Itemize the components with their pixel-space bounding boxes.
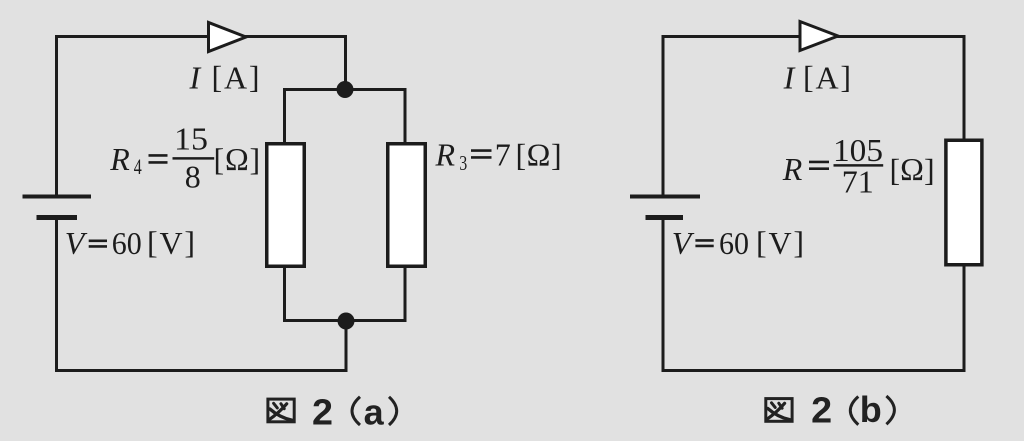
wire: left conductor lower (a) <box>55 218 58 373</box>
svg-text:[Ω]: [Ω] <box>516 136 563 172</box>
wire: top conductor (a) <box>55 35 347 38</box>
wire: top-right drop to node (a) <box>344 35 347 90</box>
wire: R3 bottom lead (a) <box>404 267 407 322</box>
resistor R3 <box>388 144 426 267</box>
node: top junction (a) <box>337 81 354 98</box>
svg-text:V: V <box>672 225 695 261</box>
current arrow I (a) <box>209 23 247 52</box>
node: bottom junction (a) <box>338 313 355 330</box>
resistor R <box>946 140 982 265</box>
battery V (a) <box>23 197 92 218</box>
wire: riser from bottom node (a) <box>345 321 348 372</box>
label R4=15/8[Ohm] <box>109 121 261 195</box>
caption figure 2(a) <box>268 391 397 432</box>
svg-text:[V]: [V] <box>147 224 197 261</box>
wire: left conductor upper (a) <box>55 35 58 197</box>
wire: right conductor upper (b) <box>963 35 966 140</box>
svg-text:I: I <box>189 59 202 95</box>
svg-text:R: R <box>435 136 456 172</box>
svg-text:[V]: [V] <box>756 224 806 261</box>
svg-text:4: 4 <box>134 154 142 179</box>
svg-text:R: R <box>782 151 803 187</box>
wire: parallel branch bottom rail (a) <box>283 319 405 322</box>
wire: bottom conductor (b) <box>662 369 966 372</box>
svg-text:[Ω]: [Ω] <box>214 141 262 177</box>
battery V (b) <box>630 197 700 218</box>
resistor R4 <box>267 144 305 267</box>
wire: R4 top lead (a) <box>283 88 286 143</box>
label R3=7[Ohm] <box>435 136 563 175</box>
svg-text:V: V <box>65 225 88 261</box>
svg-text:R: R <box>109 141 130 177</box>
svg-text:15: 15 <box>174 121 208 157</box>
label I[A] (a) <box>189 58 262 95</box>
svg-text:2: 2 <box>312 391 333 432</box>
wire: right conductor lower (b) <box>963 265 966 372</box>
label I[A] (b) <box>783 58 853 95</box>
wire: parallel branch top rail (a) <box>283 88 405 91</box>
label V=60[V] (b) <box>672 224 806 261</box>
svg-text:2: 2 <box>811 390 832 431</box>
wire: bottom conductor (a) <box>55 369 348 372</box>
caption figure 2(b) <box>766 389 895 431</box>
svg-text:b: b <box>860 389 882 430</box>
svg-text:[A]: [A] <box>803 58 853 95</box>
current arrow I (b) <box>800 22 838 51</box>
svg-text:[Ω]: [Ω] <box>890 151 935 188</box>
wire: R4 bottom lead (a) <box>283 267 286 322</box>
svg-text:60: 60 <box>112 225 142 261</box>
svg-text:60: 60 <box>719 225 749 261</box>
svg-text:[A]: [A] <box>212 58 262 95</box>
svg-text:I: I <box>783 59 796 95</box>
label V=60[V] (a) <box>65 224 197 261</box>
label R=105/71[Ohm] <box>782 132 935 199</box>
wire: left conductor upper (b) <box>662 35 665 197</box>
svg-text:71: 71 <box>842 163 874 199</box>
svg-text:7: 7 <box>495 136 511 172</box>
wire: R3 top lead (a) <box>404 88 407 143</box>
wire: left conductor lower (b) <box>662 218 665 373</box>
wire: top conductor (b) <box>662 35 966 38</box>
svg-text:a: a <box>364 391 385 432</box>
svg-text:8: 8 <box>185 159 201 195</box>
svg-text:3: 3 <box>459 151 467 175</box>
